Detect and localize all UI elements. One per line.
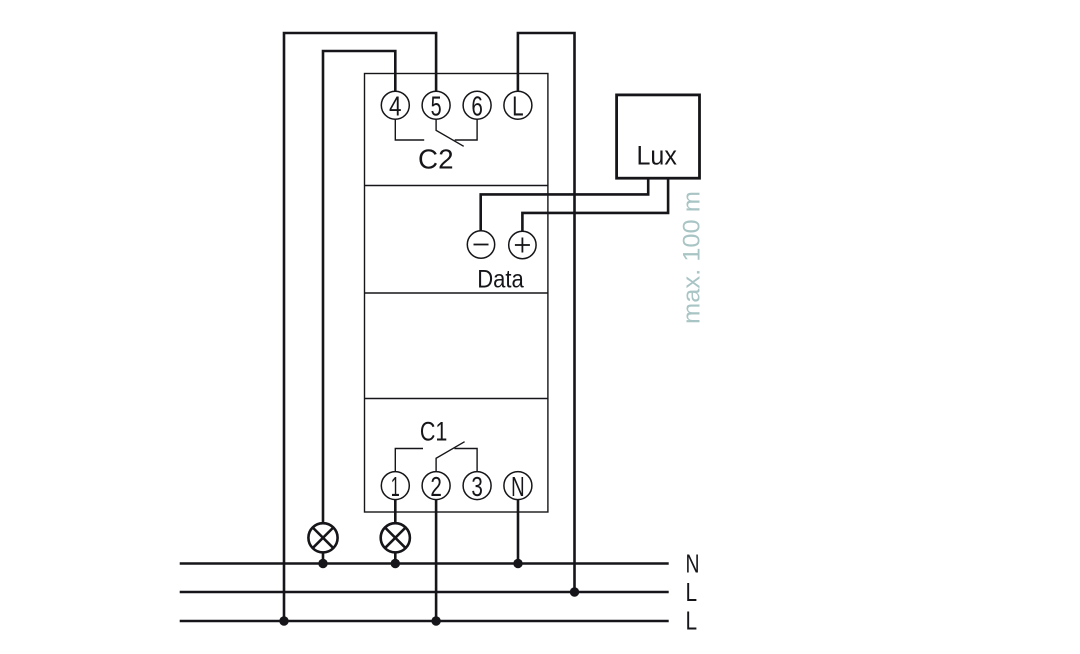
- svg-text:max. 100 m: max. 100 m: [679, 191, 706, 324]
- svg-text:Lux: Lux: [637, 141, 678, 171]
- svg-text:C2: C2: [418, 143, 454, 174]
- svg-text:N: N: [686, 549, 700, 579]
- svg-text:Data: Data: [477, 266, 524, 294]
- svg-text:L: L: [512, 90, 524, 121]
- svg-text:3: 3: [471, 471, 483, 502]
- svg-text:C1: C1: [420, 417, 448, 447]
- svg-text:N: N: [511, 471, 525, 502]
- svg-text:L: L: [686, 605, 698, 635]
- svg-text:1: 1: [391, 471, 400, 502]
- svg-text:L: L: [686, 577, 698, 607]
- svg-text:2: 2: [430, 471, 442, 502]
- svg-text:6: 6: [471, 90, 483, 121]
- svg-text:5: 5: [431, 90, 442, 121]
- svg-text:4: 4: [389, 90, 402, 121]
